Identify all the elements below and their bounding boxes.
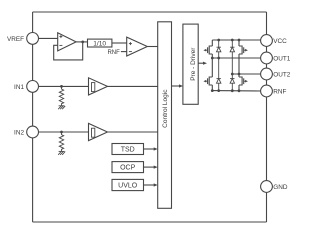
wire IN2 to schmitt buffer — [38, 131, 88, 133]
op-amp U1 (VREF buffer) — [58, 33, 76, 51]
wire pre-driver to H-bridge arrow — [198, 62, 207, 65]
svg-text:OUT1: OUT1 — [273, 55, 290, 62]
svg-text:OCP: OCP — [120, 165, 136, 172]
transistor Q3 (low side left) — [203, 58, 212, 91]
node junction dots H-bridge — [211, 39, 241, 93]
pin GND — [261, 181, 288, 193]
UVLO block — [112, 179, 144, 190]
schmitt buffer (IN1) — [89, 78, 108, 95]
attenuator 1/10 box — [88, 39, 112, 47]
transistor Q4 (low side right) — [239, 74, 248, 91]
wire schmitt IN1 to control logic — [108, 85, 158, 87]
wire control logic to pre-driver arrow — [172, 84, 184, 87]
svg-text:RNF: RNF — [273, 88, 286, 95]
pin OUT2 — [261, 68, 291, 80]
IC outline box — [33, 12, 267, 222]
diode D4 (body diode Q4) — [230, 74, 234, 91]
pin VREF — [7, 33, 39, 45]
svg-text:RNF: RNF — [107, 50, 120, 56]
svg-text:Control Logic: Control Logic — [162, 89, 169, 128]
svg-text:VREF: VREF — [7, 36, 24, 43]
wire TSD to control logic arrow — [144, 147, 158, 150]
diode D1 (body diode Q1) — [217, 40, 221, 58]
pin OUT1 — [261, 52, 291, 64]
pin IN2 — [14, 126, 38, 138]
wire U1 feedback loop — [54, 42, 83, 60]
svg-text:Pre - Driver: Pre - Driver — [190, 47, 197, 81]
diode D3 (body diode Q3) — [217, 58, 221, 91]
svg-text:IN2: IN2 — [14, 129, 24, 136]
resistor R2 (IN2 pull-down) — [59, 132, 63, 151]
TSD block — [112, 144, 144, 155]
pin IN1 — [14, 81, 38, 93]
pre-driver block U4 — [183, 24, 198, 104]
wire U2 output to control logic — [147, 46, 157, 48]
ground (below R2) — [58, 151, 65, 154]
wire U1 output to 1/10 box — [76, 41, 87, 43]
wire schmitt IN2 to control logic — [108, 131, 158, 133]
node IN1 junction — [60, 85, 63, 88]
transistor Q2 (high side right) — [239, 40, 248, 74]
node IN2 junction — [60, 131, 63, 134]
wire VCC rail — [212, 39, 260, 41]
wire IN1 to schmitt buffer — [38, 85, 88, 87]
svg-text:IN1: IN1 — [14, 84, 24, 91]
OCP block — [112, 162, 144, 173]
svg-text:UVLO: UVLO — [118, 183, 138, 190]
svg-text:OUT2: OUT2 — [273, 71, 290, 78]
wire 1/10 to op-amp U2 — [112, 42, 127, 44]
op-amp U2 (current comparator) — [127, 37, 148, 56]
node RNF sense input — [107, 50, 126, 56]
diode D2 (body diode Q2) — [230, 40, 234, 74]
svg-text:GND: GND — [273, 184, 288, 191]
pin RNF — [261, 85, 287, 97]
node U1 output junction — [81, 41, 84, 44]
wire OCP to control logic arrow — [144, 166, 158, 169]
svg-text:VCC: VCC — [273, 38, 287, 45]
transistor Q1 (high side left) — [203, 40, 212, 58]
wire RNF rail — [212, 90, 261, 92]
resistor R1 (IN1 pull-down) — [59, 86, 63, 105]
wire OUT1 rail — [212, 57, 260, 59]
svg-text:1/10: 1/10 — [93, 40, 106, 47]
wire VREF to op-amp U1 — [38, 37, 57, 39]
wire OUT2 rail — [232, 73, 260, 75]
control logic block U3 — [158, 22, 172, 209]
ground (below R1) — [58, 106, 65, 109]
pin VCC — [261, 35, 288, 47]
svg-text:TSD: TSD — [121, 147, 135, 154]
wire UVLO to control logic arrow — [144, 183, 158, 186]
schmitt buffer (IN2) — [89, 123, 108, 140]
